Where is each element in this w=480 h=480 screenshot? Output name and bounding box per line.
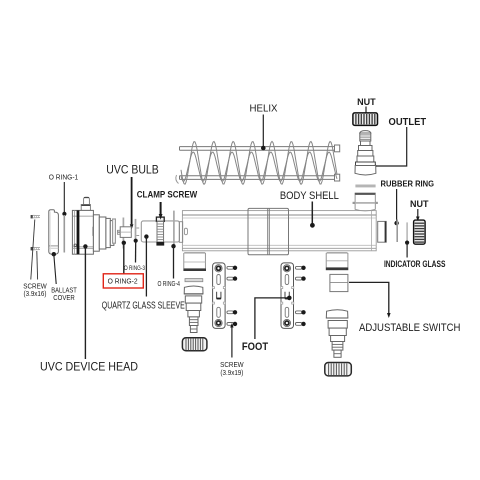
leader helix [262,115,264,147]
o-ring 4 [173,211,175,247]
inlet stack [184,286,203,333]
foot 2 screws [295,266,305,327]
svg-text:ADJUSTABLE SWITCH: ADJUSTABLE SWITCH [359,322,461,334]
uvc bulb base [117,227,131,238]
svg-text:INDICATOR GLASS: INDICATOR GLASS [384,259,446,269]
screw S1 (3.9x16) [31,215,40,218]
svg-text:BALLAST: BALLAST [51,288,77,295]
adjustable switch knob [330,274,348,291]
svg-text:HELIX: HELIX [250,104,278,115]
o-ring 2 [122,218,124,249]
leader o-ring-2 [122,241,126,245]
leader o-ring-3 [134,239,138,243]
svg-text:O RING-1: O RING-1 [49,173,79,182]
leader uvc bulb [131,177,133,224]
body bottom boss right [326,253,349,270]
helix bottom rail [180,174,340,181]
svg-text:SCREW: SCREW [220,362,244,369]
svg-text:NUT: NUT [410,199,429,210]
svg-text:NUT: NUT [357,97,376,108]
screw S2 (3.9x16) [31,247,40,250]
leader rubber ring [396,189,398,222]
foot 1 [212,263,225,329]
knurled nut left [182,338,207,351]
quartz glass sleeve [141,221,179,242]
flat gasket [185,279,203,282]
rubber ring [396,220,398,243]
svg-text:O RING-4: O RING-4 [157,281,180,288]
knurled nut right [325,363,352,376]
ballast cover [49,210,59,255]
clamp screw [156,217,164,246]
leader o-ring-4 [171,244,175,248]
red box O RING-2 [103,274,143,288]
body bottom boss left [183,253,206,271]
leader uvc device head [83,244,87,248]
body top boss [353,193,378,211]
leader nut right [417,209,419,217]
leader quartz glass sleeve [144,234,148,238]
body shell centre band [248,208,289,254]
UVC device head: stepped cone [93,215,115,251]
helix coil [176,141,337,184]
leader clamp screw [160,202,162,215]
outlet [355,131,376,175]
rubber washer under outlet [355,185,375,188]
leader o-ring-1 [63,182,65,213]
o-ring 1 [63,215,65,253]
leader nut top [365,107,367,115]
nut right [414,220,426,244]
svg-text:CLAMP SCREW: CLAMP SCREW [137,190,198,200]
svg-text:O RING-2: O RING-2 [108,279,138,286]
svg-text:(3.9x19): (3.9x19) [220,370,243,377]
leader screw 3.9x19 [231,328,233,358]
leader body shell [311,202,313,225]
svg-text:BODY SHELL: BODY SHELL [280,190,339,202]
body shell left cap [179,222,182,243]
svg-text:FOOT: FOOT [242,341,268,353]
svg-text:UVC DEVICE HEAD: UVC DEVICE HEAD [40,360,138,374]
foot 1 screws [227,266,237,327]
o-ring 3 [135,219,137,241]
nut top [353,113,378,126]
svg-text:COVER: COVER [53,295,75,302]
svg-text:SCREW: SCREW [23,284,47,291]
leader indicator glass [405,241,409,245]
leader ballast cover [52,252,56,256]
svg-text:OUTLET: OUTLET [389,116,427,128]
svg-text:(3.9x16): (3.9x16) [24,291,47,298]
foot 2 [281,263,294,329]
leader foot [255,298,288,339]
leader adjustable switch [349,282,389,313]
leader screw S2 [36,251,39,280]
svg-text:O RING-3: O RING-3 [124,265,145,272]
helix top rail [180,145,340,152]
UVC device head: main box [72,210,95,254]
leader screw S1 [31,220,35,280]
body shell right cap [378,221,387,242]
switch valve stack [326,310,348,358]
leader outlet [376,127,407,166]
svg-text:RUBBER RING: RUBBER RING [381,179,435,189]
UVC device head: cable gland on top [81,197,90,210]
svg-text:UVC BULB: UVC BULB [106,164,159,176]
indicator glass [406,222,408,242]
svg-text:QUARTZ GLASS SLEEVE: QUARTZ GLASS SLEEVE [102,300,185,312]
